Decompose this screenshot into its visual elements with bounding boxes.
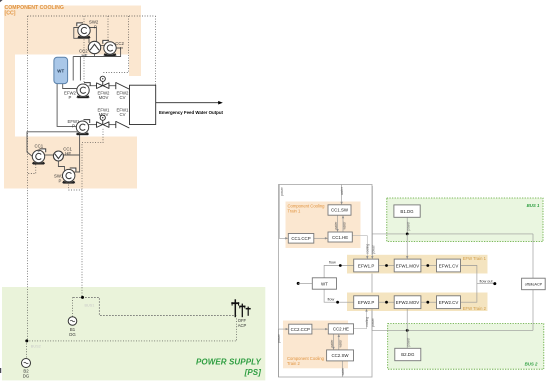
- svg-text:power: power: [406, 221, 410, 231]
- wire B1.DG to bus: [406, 217, 408, 234]
- wire CC1.CCP to CC1.HE: [314, 237, 326, 239]
- svg-text:EFW1.P: EFW1.P: [358, 263, 374, 268]
- wire CC2.CCP to CC2.HE: [312, 328, 327, 330]
- tank WT: [54, 57, 68, 83]
- label EFW1 P: [68, 119, 81, 129]
- pipe CC2-P discharge to CC2-HE: [101, 45, 104, 47]
- pipe EFW1 MOV to CV: [109, 124, 116, 126]
- wire port water to CC1.SW: [341, 185, 343, 204]
- region BUS 2: [388, 324, 544, 370]
- region BUS 1: [387, 198, 543, 242]
- pipe EFW1 row discharge: [89, 124, 97, 126]
- wire CC1.HE cooling to EFW1.P: [352, 236, 367, 258]
- label CC1 HE: [63, 146, 72, 156]
- svg-text:WT: WT: [321, 281, 328, 286]
- pump SW2 P: [77, 23, 91, 39]
- region Component Cooling Train 2: [283, 321, 348, 369]
- svg-text:water: water: [334, 221, 338, 230]
- svg-text:BUS 2: BUS 2: [525, 362, 538, 367]
- CC dotted border left edge: [27, 16, 29, 341]
- box EFW2.CV: [437, 296, 461, 309]
- wire BUS1 power line: [372, 233, 533, 235]
- pipe EFW2 MOV to CV: [109, 85, 116, 87]
- pipe WT to EFW2-P suction: [63, 84, 77, 89]
- svg-text:DG: DG: [69, 332, 76, 337]
- wire ACP to BUS2 dotted: [235, 319, 237, 341]
- svg-text:BUS1: BUS1: [85, 304, 95, 308]
- svg-text:EFW2.MOV: EFW2.MOV: [396, 300, 419, 305]
- pipe SW1-P discharge riser: [75, 155, 80, 172]
- wire EFW2.P to EFW2.MOV: [379, 301, 395, 303]
- box CC1.SW: [328, 205, 351, 215]
- svg-text:power: power: [372, 244, 376, 254]
- wire B2 DG to BUS2 dotted: [25, 341, 27, 359]
- wire output arrow: [156, 102, 221, 104]
- wire CC2 port power left edge: [278, 329, 287, 377]
- svg-text:power: power: [406, 337, 410, 347]
- box EFW2.MOV: [394, 296, 421, 309]
- svg-text:ACP: ACP: [238, 323, 247, 328]
- pipe CC1-HE to EFW1-P cooling return: [63, 135, 79, 156]
- pipe SW2-P discharge loop: [74, 28, 89, 44]
- wire port power to CC1.CCP: [279, 185, 286, 239]
- pump CC2 P: [103, 40, 117, 56]
- box CC1.HE: [328, 232, 352, 242]
- wire EFW2.CV to flow out: [461, 284, 477, 303]
- valve EFW1 CV: [116, 121, 130, 128]
- svg-text:water: water: [341, 367, 345, 376]
- box EFW1.CV: [437, 259, 461, 272]
- svg-text:HE: HE: [82, 53, 88, 58]
- generator B1 DG: [68, 317, 77, 326]
- wire EFW1.CV to flow out: [461, 266, 495, 284]
- component cooling region fill top band: [4, 6, 141, 55]
- svg-text:EFW1.MOV: EFW1.MOV: [396, 263, 419, 268]
- svg-text:CC1.SW: CC1.SW: [331, 208, 349, 213]
- wire BUS2 power line: [372, 329, 533, 331]
- wire CC1.HE to CC1.SW up: [342, 217, 344, 232]
- wire BUS2 dotted: [27, 340, 237, 342]
- label B2 DG: [23, 369, 30, 379]
- svg-text:water: water: [338, 339, 342, 348]
- label CC2 HE: [79, 48, 88, 58]
- region Component Cooling Train 1: [286, 202, 361, 249]
- pump SW1 P: [62, 168, 76, 184]
- wire EFW2.MOV to bus: [406, 309, 408, 331]
- box EFW1.P: [354, 259, 379, 272]
- svg-text:power: power: [277, 333, 281, 343]
- wire bus to B2.DG: [406, 330, 408, 348]
- wire WT start node: [297, 282, 300, 285]
- pipe EFW2 row discharge: [89, 85, 97, 87]
- wire CC1.SW to CC1.HE down: [337, 215, 339, 230]
- label SW2 P: [89, 20, 99, 30]
- wire BUS1 dashed: [73, 297, 236, 315]
- svg-text:B1.DG: B1.DG: [400, 209, 414, 214]
- valve EFW2 CV: [116, 82, 130, 89]
- CC dotted border right edge: [154, 16, 156, 85]
- svg-text:MOV: MOV: [99, 112, 109, 117]
- label EFW1 CV: [117, 107, 130, 117]
- node bus2 junction: [406, 329, 409, 332]
- wire power main to EFW1.P: [371, 186, 373, 257]
- svg-text:P: P: [59, 179, 62, 184]
- corner artifact top-left: [0, 0, 3, 2]
- svg-text:power: power: [280, 186, 284, 196]
- valve EFW2 MOV: [97, 76, 109, 88]
- dotted power line to SW2-P and EFW2-P: [83, 16, 85, 84]
- wire CC2.HE cooling to EFW2.P: [354, 310, 367, 328]
- heat exchanger CC1 HE: [53, 151, 63, 161]
- svg-text:flow: flow: [329, 260, 336, 264]
- label EFW2 MOV: [98, 90, 111, 100]
- dotted power line to EFW2-MOV: [103, 16, 128, 73]
- pipe CC1-P discharge to CC1-HE: [44, 154, 53, 156]
- svg-text:P: P: [120, 46, 123, 51]
- svg-text:Train 1: Train 1: [288, 208, 302, 213]
- heat exchanger CC2 HE: [88, 41, 100, 53]
- svg-text:HE: HE: [65, 151, 71, 156]
- CC dotted border top edge: [28, 15, 156, 17]
- label B1 DG: [69, 327, 76, 337]
- label SW1 P: [54, 174, 64, 184]
- wire WT flow to EFW1.P: [324, 266, 354, 278]
- svg-text:P: P: [72, 124, 75, 129]
- svg-text:Train 2: Train 2: [287, 361, 301, 366]
- svg-text:cooling: cooling: [365, 317, 369, 327]
- transmission tower 3: [246, 307, 251, 316]
- node flow out: [493, 282, 496, 285]
- svg-text:EFW Train 1: EFW Train 1: [463, 256, 487, 261]
- svg-text:CV: CV: [120, 95, 126, 100]
- pump EFW1 P: [76, 120, 90, 136]
- wire CC2.SW to CC2.HE up: [338, 336, 340, 350]
- svg-text:P: P: [69, 95, 72, 100]
- svg-text:WT: WT: [57, 68, 64, 73]
- power supply region fill: [2, 287, 265, 380]
- svg-text:cooling: cooling: [366, 244, 370, 254]
- dotted power line CC1-P to BUS2: [28, 165, 36, 174]
- wire bus to EFW1.MOV: [406, 234, 408, 257]
- node BUS1 junction: [81, 296, 84, 299]
- svg-text:DG: DG: [23, 374, 30, 379]
- region EFW Train 1: [347, 255, 488, 274]
- box offsiteACP: [522, 278, 546, 290]
- svg-text:water: water: [343, 221, 347, 230]
- label CC2 P: [115, 41, 124, 51]
- box CC1.CCP: [288, 234, 314, 244]
- svg-text:[PS]: [PS]: [244, 368, 262, 377]
- wire EFW1.P to EFW1.MOV: [379, 265, 395, 267]
- pump EFW2 P: [76, 83, 90, 99]
- svg-text:CC2.HE: CC2.HE: [333, 327, 349, 332]
- box B1.DG: [394, 205, 420, 217]
- transmission tower 1: [231, 299, 239, 317]
- wire EFW2.P power to bus: [371, 309, 373, 331]
- wire offsite riser upper: [532, 234, 534, 278]
- transmission tower 2: [239, 304, 245, 318]
- box CC2.CCP: [289, 324, 312, 334]
- svg-text:flow out: flow out: [480, 279, 494, 283]
- box EFW2.P: [354, 296, 379, 309]
- svg-text:P: P: [94, 24, 97, 29]
- box CC2.HE: [328, 324, 353, 334]
- corner artifact left edge bottom: [0, 368, 1, 373]
- dotted power line SW1-P feeder: [69, 182, 82, 190]
- wire EFW1.MOV to EFW1.CV: [421, 265, 437, 267]
- svg-text:CC1.CCP: CC1.CCP: [291, 236, 310, 241]
- label COMPONENT COOLING [CC]: [5, 5, 64, 17]
- svg-text:water: water: [340, 186, 344, 195]
- dotted power line EFW1-MOV to BUS1: [82, 129, 103, 298]
- region EFW Train 2: [347, 293, 488, 312]
- svg-text:EFW2.P: EFW2.P: [358, 300, 374, 305]
- svg-text:BUS2: BUS2: [31, 344, 41, 348]
- valve EFW1 MOV: [97, 115, 109, 127]
- box WT: [312, 278, 336, 289]
- svg-text:CC2.SW: CC2.SW: [331, 353, 349, 358]
- label EFW1 MOV: [98, 107, 111, 117]
- system boundary box: [279, 185, 373, 378]
- svg-text:B2.DG: B2.DG: [401, 352, 415, 357]
- label EFW2 P: [64, 90, 77, 100]
- svg-text:POWER SUPPLY: POWER SUPPLY: [196, 358, 262, 367]
- node bus1 junction: [406, 233, 409, 236]
- svg-text:[CC]: [CC]: [5, 11, 16, 17]
- box EFW1.MOV: [394, 259, 421, 272]
- pipe CC1-HE to SW1-P: [58, 161, 64, 171]
- label EFW2 CV: [117, 90, 130, 100]
- node BUS2 junction: [25, 339, 28, 342]
- node flow1 junction: [339, 264, 342, 267]
- wire EFW2.MOV to EFW2.CV: [421, 301, 437, 303]
- pipe EFW1-P cooling to CC1-P: [27, 132, 77, 157]
- wire CC2.HE to CC2.SW down: [333, 334, 335, 348]
- component cooling region fill left strip: [4, 55, 15, 189]
- pipe CC2-HE bottom tap: [94, 54, 96, 57]
- label OFF ACP: [238, 318, 247, 328]
- merge header box: [130, 85, 156, 124]
- svg-text:P: P: [38, 148, 41, 153]
- node flow2 junction: [336, 301, 339, 304]
- pipe WT to EFW1-P suction: [57, 84, 77, 127]
- svg-text:EFW2.CV: EFW2.CV: [439, 300, 459, 305]
- wire WT flow to EFW2.P: [324, 289, 354, 302]
- pipe cooling drop to EFW2-P right: [79, 57, 81, 81]
- component cooling region fill bottom band: [4, 137, 137, 189]
- wire CC2.SW port bottom: [341, 361, 343, 377]
- svg-text:water: water: [330, 339, 334, 348]
- label POWER SUPPLY [PS]: [196, 358, 262, 378]
- svg-text:EFW1.CV: EFW1.CV: [439, 263, 459, 268]
- svg-text:power: power: [371, 317, 375, 327]
- wire B1 DG to BUS1 dotted: [72, 297, 74, 316]
- generator B2 DG: [22, 359, 31, 368]
- box CC2.SW: [327, 350, 354, 361]
- svg-text:flow: flow: [328, 297, 335, 301]
- svg-text:CV: CV: [120, 112, 126, 117]
- svg-text:Emergency Feed Water Output: Emergency Feed Water Output: [159, 110, 224, 115]
- box B2.DG: [395, 348, 421, 360]
- pipe SW2-P suction: [90, 28, 97, 45]
- svg-text:offsiteACP: offsiteACP: [525, 283, 543, 287]
- svg-text:CC2.CCP: CC2.CCP: [291, 327, 310, 332]
- svg-text:EFW Train 2: EFW Train 2: [463, 306, 487, 311]
- pump CC1 P: [32, 149, 46, 165]
- pipe CC2-P suction return: [73, 48, 120, 57]
- svg-text:MOV: MOV: [99, 95, 109, 100]
- svg-text:CC1.HE: CC1.HE: [332, 235, 348, 240]
- wire offsite riser lower: [532, 290, 534, 331]
- label CC1 P: [35, 144, 44, 154]
- component cooling region fill right strip: [129, 55, 141, 77]
- svg-text:BUS 1: BUS 1: [527, 203, 540, 208]
- pipe cooling drop to EFW2-P left: [72, 57, 74, 81]
- dotted power line to CC2-P: [107, 16, 109, 42]
